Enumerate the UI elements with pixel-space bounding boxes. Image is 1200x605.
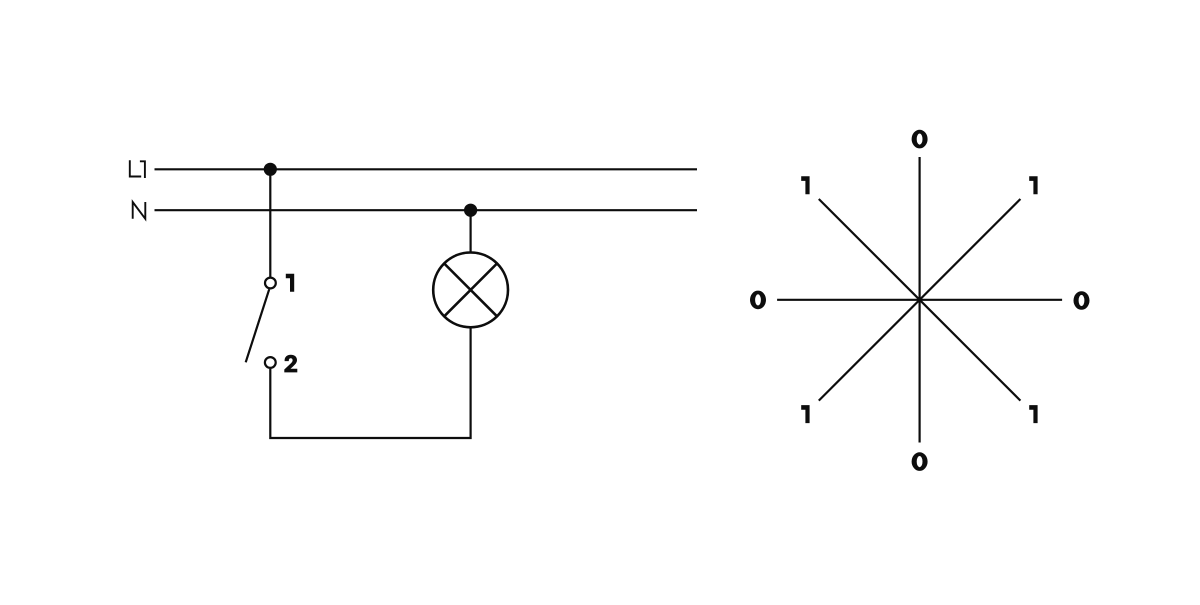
- pin label 1: [286, 274, 294, 292]
- label L1: [130, 160, 145, 178]
- wire from N junction down to lamp top: [470, 210, 472, 252]
- lamp cross stroke 1: [444, 264, 497, 317]
- switch terminal 2 circle: [265, 357, 276, 368]
- junction dot on L1: [264, 163, 277, 176]
- switch blade (open): [246, 289, 270, 362]
- star diagram horizontal ray pair: [777, 299, 1062, 301]
- star diagram diagonal ray NW-SE: [819, 199, 1021, 401]
- position label 1 bottom-left: [801, 405, 809, 423]
- wire from L1 junction down to switch terminal 1: [269, 169, 271, 277]
- position label 0 top: [912, 130, 928, 149]
- position label 0 right: [1074, 291, 1090, 310]
- position label 1 top-left: [801, 176, 809, 194]
- switch terminal 1 circle: [265, 278, 276, 289]
- position label 0 left: [750, 291, 766, 310]
- position label 1 bottom-right: [1029, 405, 1037, 423]
- junction dot on N: [464, 204, 477, 217]
- position label 0 bottom: [912, 452, 928, 471]
- star diagram diagonal ray NE-SW: [819, 199, 1021, 401]
- wire from terminal 2 down, across bottom, up to lamp: [270, 327, 470, 438]
- position label 1 top-right: [1029, 176, 1037, 194]
- lamp cross stroke 2: [444, 264, 497, 317]
- wire N line: [155, 209, 698, 211]
- pin label 2: [284, 355, 297, 373]
- star diagram vertical ray pair: [918, 157, 920, 443]
- lamp E1 circle: [433, 253, 508, 328]
- label N: [133, 202, 146, 219]
- wire L1 line: [155, 168, 698, 170]
